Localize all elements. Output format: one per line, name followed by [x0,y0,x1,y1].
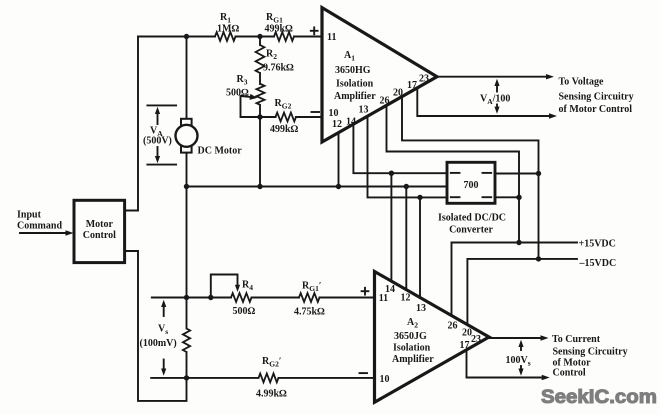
svg-text:SeekIC.com: SeekIC.com [541,386,657,408]
svg-text:DC Motor: DC Motor [198,146,243,157]
wire motor to common bus [186,152,188,187]
wire left column upper [125,37,138,211]
svg-text:Input: Input [17,210,42,221]
svg-text:Amplifier: Amplifier [334,91,376,102]
svg-text:Isolation: Isolation [393,343,431,354]
svg-text:(100mV): (100mV) [140,338,177,349]
dcdc pin dashes [451,172,460,174]
node sense/motor column [184,295,189,300]
svg-text:100Vs: 100Vs [506,355,531,368]
svg-text:of Motor Control: of Motor Control [559,104,633,115]
svg-text:To Current: To Current [552,334,601,345]
A2 pin labels [362,290,369,292]
node DCDC right bottom stub join [516,195,521,200]
resistor R1 [215,32,236,41]
node RG2 junction [257,114,262,119]
svg-text:Control: Control [553,368,586,379]
wire DCDC stub right top [495,173,539,175]
wire common bus W2 [187,186,448,188]
svg-text:4.99kΩ: 4.99kΩ [256,389,287,400]
svg-text:17: 17 [460,340,470,351]
isolated dc/dc converter box [447,162,495,203]
svg-text:14: 14 [385,284,395,295]
wire -15VDC rail [467,259,577,326]
svg-text:700: 700 [464,180,479,191]
op-amp A2 [375,272,490,403]
Vs measure arrows [163,306,165,316]
wire A1 pin17 lower output [417,88,550,116]
svg-text:3650HG: 3650HG [335,65,371,76]
wire top bus left segment [138,36,215,38]
shunt resistor Vs [183,329,190,353]
wire A2 lower output [467,350,544,378]
svg-text:26: 26 [448,320,458,331]
wire +15VDC rail [452,243,578,317]
resistor RG1 [274,32,294,41]
wire between R1 and RG1 [236,36,275,38]
svg-text:23: 23 [471,334,481,345]
svg-text:Sensing Circuitry: Sensing Circuitry [559,92,634,103]
VA/100 arrows [496,84,498,92]
node -15 rail [536,256,541,261]
wire A1 pin14 to DCDC (W1) [353,124,447,173]
svg-text:Control: Control [83,230,116,241]
svg-text:499kΩ: 499kΩ [270,124,299,135]
svg-text:9.76kΩ: 9.76kΩ [263,63,294,74]
svg-text:1MΩ: 1MΩ [217,24,239,35]
dc motor [181,119,192,126]
svg-text:12: 12 [332,119,342,130]
node W2 A2 pin12 [404,184,409,189]
svg-text:(500V): (500V) [143,136,172,147]
motor control box [74,200,125,262]
wire R2 column top [259,37,261,46]
node top bus / motor column [184,34,189,39]
svg-text:17: 17 [407,80,417,91]
wire A2 pin12 drop [405,187,407,291]
resistor R2 [256,45,265,73]
svg-text:10: 10 [329,108,339,119]
svg-text:13: 13 [416,303,426,314]
svg-text:Sensing Circuitry: Sensing Circuitry [553,347,628,358]
svg-text:23: 23 [419,74,429,85]
svg-text:To Voltage: To Voltage [559,77,604,88]
svg-text:26: 26 [380,96,390,107]
resistor RG2' [259,374,279,383]
svg-text:–15VDC: –15VDC [579,258,617,269]
wire motor column upper [186,37,188,121]
node W3 branch A2 pin13 [417,195,422,200]
svg-text:VA/100: VA/100 [480,94,510,107]
wire A1 pin12 drop [338,133,340,187]
R3 wiper arrow [241,96,251,97]
svg-text:Command: Command [17,221,62,232]
svg-text:20: 20 [393,88,403,99]
resistor RG1' [299,293,320,302]
resistor R4 (pot) [231,293,252,302]
node RG2' / column [184,375,189,380]
svg-text:13: 13 [359,105,369,116]
svg-text:12: 12 [401,293,411,304]
wire R3 wiper loop [241,96,261,117]
wire A1 output [437,76,548,78]
wire R2 to R3 [259,73,261,84]
wire A2 pin13 drop [419,197,421,298]
svg-text:10: 10 [380,374,390,385]
svg-text:Isolation: Isolation [336,79,374,90]
svg-text:500Ω: 500Ω [233,306,256,317]
svg-text:Motor: Motor [86,219,114,230]
wire sense top line [152,297,231,299]
svg-text:+15VDC: +15VDC [579,239,616,250]
A1 pin labels [311,30,318,32]
wire RG2' line [151,377,258,379]
svg-text:4.75kΩ: 4.75kΩ [294,307,325,318]
svg-text:499kΩ: 499kΩ [265,24,294,35]
wire DCDC stub right bottom [495,196,519,198]
wire R3 bottom to common [259,105,261,187]
node W2 motor column [184,184,189,189]
wire A1 pin26 to +15 column [387,105,520,242]
node DCDC right top stub join [536,171,541,176]
resistor R3 (pot) [257,84,265,105]
wire A1 pin20 to -15 column [402,97,539,259]
wire RG1 to A1 pin 11 [294,36,323,38]
node W2 R column [257,184,262,189]
wire left column lower [125,251,187,401]
op-amp A1 [322,8,437,142]
svg-text:Isolated DC/DC: Isolated DC/DC [438,213,506,224]
node W2 A1 pin12 [336,184,341,189]
node +15 rail [516,240,521,245]
node R4 bridge [208,295,213,300]
VA measure arrows [147,104,176,106]
svg-text:Amplifier: Amplifier [392,354,434,365]
wire A2 output [489,337,542,339]
wire A2 pin14 drop [390,173,392,282]
node top bus / R2 column [257,34,262,39]
wire motor column to sense line [186,187,188,298]
svg-text:3650JG: 3650JG [394,331,427,342]
node W1 branch A2 pin14 [389,171,394,176]
wire A1 pin13 to DCDC (W3) [368,116,448,197]
svg-text:11: 11 [327,32,336,43]
resistor RG2 [276,113,297,122]
svg-text:Converter: Converter [449,225,493,236]
svg-text:14: 14 [346,117,356,128]
100Vs arrows [520,345,522,350]
